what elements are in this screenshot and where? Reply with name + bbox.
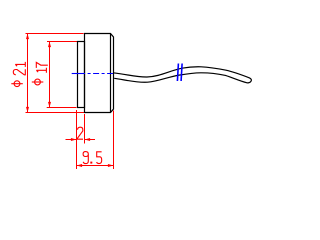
label 9.5 [83,152,102,164]
extension line left (2 and 9.5 dims) [76,110,78,169]
label 2 [78,127,84,139]
label phi21 (rotated) [11,81,22,87]
label phi17 (rotated) [32,79,44,85]
arrow 2 right [85,138,91,141]
dimension line 2 (left segment) [66,139,77,141]
sensor body main cylinder [85,34,114,113]
chamfer edge line [110,34,112,113]
arrow phi17 bottom [48,102,51,108]
dimension line phi17 [49,42,51,108]
dimension line phi21 [27,34,29,113]
cable break mark [177,64,178,82]
dimension line 2 (right segment) [85,139,96,141]
dimension extension line bottom (phi17) [47,107,77,109]
extension line right (2 dim) [84,114,86,144]
sensor body front plate [78,42,85,108]
dimension extension line bottom (phi21) [26,112,87,114]
arrow phi17 top [48,42,51,48]
arrow 9.5 left [77,164,83,167]
dimension extension line top (phi17) [47,41,77,43]
dimension extension line top (phi21) [26,33,84,35]
cable [113,67,251,83]
arrow phi21 top [26,34,29,40]
centerline [72,73,85,75]
dimension line 9.5 [77,165,114,167]
extension line right (9.5 dim) [113,111,115,170]
arrow 2 left [71,138,77,141]
arrow 9.5 right [108,164,114,167]
arrow phi21 bottom [26,107,29,113]
